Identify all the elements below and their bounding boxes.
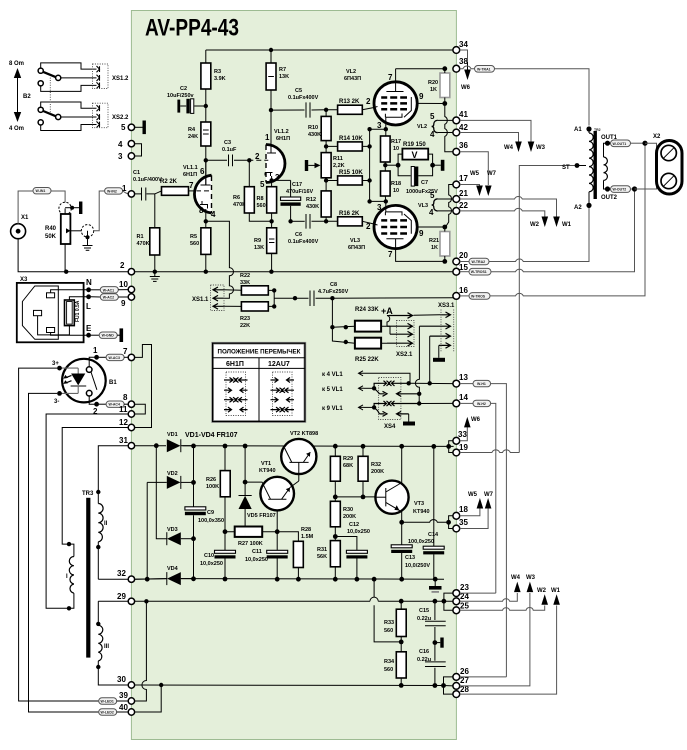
svg-text:II: II [104,521,108,527]
svg-text:0.1uF/400V: 0.1uF/400V [133,177,162,183]
svg-text:6: 6 [200,167,205,176]
svg-text:VT1: VT1 [261,461,271,467]
svg-text:W2: W2 [530,222,540,228]
oval W-GND [91,334,99,336]
svg-text:6П43П: 6П43П [344,76,361,82]
svg-text:VL3: VL3 [350,238,360,244]
cathode VL2 [385,114,402,118]
wire X1 top to W-IN1 [18,191,33,224]
svg-text:W-LED2: W-LED2 [101,711,114,715]
svg-text:0.1uFx400V: 0.1uFx400V [288,239,319,245]
wire pin 31 left down (outside) [98,446,128,492]
wire winding II bottom to pin 32 [98,578,128,580]
svg-text:36: 36 [459,141,468,150]
svg-text:W-IN2: W-IN2 [107,189,117,193]
svg-text:R12: R12 [306,197,316,203]
svg-text:3: 3 [118,152,123,161]
diode column vertical [193,446,195,507]
svg-text:VL2: VL2 [417,124,427,130]
svg-text:8 Om: 8 Om [9,61,24,67]
VT3 base wire [335,496,375,498]
grid dashes VL1.2 [249,159,268,161]
svg-text:100,0x250: 100,0x250 [408,539,434,545]
bottom bus (minus rail) [135,578,444,581]
grids VL2 [381,98,407,110]
lower bus (29 row) [135,600,444,602]
ST feedback vertical [519,166,577,453]
VT1 base wire from VD5 node [243,480,248,485]
svg-text:V: V [412,150,418,160]
feedback column [369,129,371,201]
rectifier bus top (pin31 row) [135,445,454,448]
svg-text:W7: W7 [484,492,494,498]
wire pin34 to W6 jumper [460,50,468,62]
wire pin18 to W5 up arrow [460,507,480,516]
svg-text:7: 7 [388,73,393,82]
svg-text:10,0x250: 10,0x250 [347,529,370,535]
svg-text:ST: ST [562,165,570,171]
svg-text:6Н1П: 6Н1П [226,361,244,368]
svg-text:W-H2: W-H2 [477,402,486,406]
svg-text:13K: 13K [279,74,289,80]
svg-text:W1: W1 [551,588,561,594]
svg-text:8: 8 [199,206,204,215]
svg-text:W-AC1: W-AC1 [103,288,114,292]
svg-text:R33: R33 [384,620,394,626]
svg-text:R6: R6 [233,195,240,201]
svg-text:8: 8 [123,393,128,402]
oval W-LED1 [99,698,117,704]
svg-text:4: 4 [211,210,216,219]
svg-text:W3: W3 [536,145,546,151]
svg-text:FU1 0.5A: FU1 0.5A [75,300,81,322]
svg-text:4: 4 [118,140,123,149]
svg-text:430K: 430K [306,204,319,210]
svg-text:29: 29 [117,592,126,601]
wire W-IN1 to pot top [51,191,65,203]
anode VL1.1 [201,184,211,186]
svg-text:200K: 200K [371,469,384,475]
svg-text:2,2K: 2,2K [333,163,345,169]
wire pin16 through W-TROS to OUT1 [460,295,469,297]
svg-text:к 9 VL1: к 9 VL1 [322,406,343,412]
svg-text:W5: W5 [468,492,478,498]
svg-text:X2: X2 [653,134,661,140]
wire inside green: pin 7 jog to pin 12 [135,345,152,428]
svg-text:15: 15 [459,263,468,272]
LED triangle [71,374,85,386]
svg-text:R21: R21 [429,238,439,244]
beam plate VL3 [404,214,411,234]
VT3 collector up to bus [399,446,402,484]
wire pin22 to W2 with hop [460,208,545,217]
X3 internal wires [51,290,89,293]
+A wire across to XS3.1 [414,314,441,316]
svg-text:W-AC2: W-AC2 [103,296,114,300]
mechanical link dotted line [49,78,51,114]
svg-text:C10: C10 [204,553,214,559]
svg-text:VL1.2: VL1.2 [274,129,289,135]
svg-text:R26: R26 [206,477,216,483]
svg-text:0.1uFx400V: 0.1uFx400V [288,95,319,101]
oval W-H2 [460,402,473,404]
wire gnd bus inside green [135,271,457,273]
resistor R25 22K [355,338,381,349]
svg-text:R22: R22 [240,273,250,279]
wire C8 node to pin 16 row [330,296,334,300]
svg-text:32: 32 [117,569,126,578]
svg-text:16: 16 [459,286,468,295]
svg-text:5: 5 [430,112,435,121]
svg-text:A1: A1 [574,127,582,133]
svg-text:2: 2 [120,261,125,270]
svg-text:C17: C17 [292,182,302,188]
wire pin25 to W2 lower arrow with hops [460,606,545,611]
VT1 emitter down wire [276,510,278,531]
svg-text:TR3: TR3 [82,491,94,497]
svg-text:X1: X1 [21,215,29,221]
svg-text:R27 100K: R27 100K [238,541,263,547]
wire pin 17 down to R21 top with hops [446,185,453,227]
VT2 base to VT1 emitter [298,462,300,481]
svg-text:W-AC3: W-AC3 [109,356,120,360]
wire jumpers to pin 13 [407,381,411,385]
wire B1 3+ left down [19,368,99,701]
svg-text:7: 7 [189,181,194,190]
wire pin27 to W3 lower arrow [460,593,530,686]
wire jumpers to pin 14 [417,392,421,396]
svg-text:R1: R1 [137,234,144,240]
chassis ground below bus [434,579,436,586]
svg-text:4: 4 [429,208,434,217]
IEC outline [22,286,58,339]
wire B1 3- left down [29,393,99,712]
svg-text:1K: 1K [431,245,438,251]
wire pin 11 to TR3 primary bottom [46,414,128,608]
svg-text:12AU7: 12AU7 [268,361,290,368]
svg-text:C1: C1 [133,170,140,176]
secondary winding [604,157,608,180]
svg-text:C5: C5 [295,88,302,94]
wire pin36 to W7 [460,152,489,185]
svg-text:430K: 430K [308,132,321,138]
svg-text:C15: C15 [419,608,429,614]
svg-text:R34: R34 [384,659,395,665]
svg-text:W-LED1: W-LED1 [101,700,114,704]
svg-text:KT940: KT940 [259,468,276,474]
svg-text:R2 2K: R2 2K [160,179,178,185]
svg-text:10uF/250v: 10uF/250v [167,93,195,99]
svg-text:10,0x250: 10,0x250 [245,557,268,563]
svg-text:5: 5 [121,123,126,132]
wire VT3 emitter to pins 18/35 with hop [402,520,449,523]
svg-text:560: 560 [190,241,199,247]
svg-text:C8: C8 [330,282,337,288]
svg-text:R3: R3 [214,69,221,75]
cathode VL3 [385,212,402,216]
svg-text:R32: R32 [371,462,381,468]
svg-text:20: 20 [459,251,468,260]
svg-text:3-: 3- [54,399,59,405]
svg-text:3.9K: 3.9K [214,76,226,82]
svg-text:W-IN1: W-IN1 [36,189,46,193]
shield dashed circle top [59,202,71,214]
wiper arrow of R40 [66,228,70,233]
svg-text:23: 23 [460,583,469,592]
green circuit board region [131,11,456,740]
junction dot [70,206,74,210]
bracket 26/27/28 to bus [444,677,454,694]
svg-text:C6: C6 [295,232,302,238]
svg-text:560: 560 [257,203,266,209]
svg-text:4 Om: 4 Om [9,126,24,132]
svg-text:XS1.2: XS1.2 [112,76,129,82]
bottom-most bus (30 row) [135,684,444,687]
svg-text:41: 41 [459,110,468,119]
svg-text:VD2: VD2 [167,471,178,477]
svg-text:30: 30 [117,675,126,684]
svg-text:4.7uFx250V: 4.7uFx250V [318,289,349,295]
svg-text:10: 10 [393,188,399,194]
chassis bar below XS3.1 [438,345,440,357]
cathode VL1.2 [265,173,273,177]
oval W-AC2 [91,296,100,298]
core TR2 [594,131,597,199]
svg-text:R24 33K: R24 33K [355,307,379,313]
wire pin38 through W-TRA1 to A1 [460,66,474,69]
prong L [47,328,55,333]
beam plate VL2 [404,97,411,117]
junction on bus [64,270,68,274]
grid wire from R16 [374,224,378,225]
svg-text:B2: B2 [23,94,31,100]
VT3 emitter down [399,510,402,522]
svg-text:OUT2: OUT2 [601,195,618,201]
svg-text:7: 7 [388,250,393,259]
svg-text:XS3.1: XS3.1 [438,303,455,309]
wire pin20 through W-TRA2 to A2 [460,261,469,263]
svg-text:2: 2 [366,222,371,231]
svg-text:12: 12 [119,418,128,427]
wire pin21 to W1 with hop [460,197,557,217]
svg-text:19: 19 [459,443,468,452]
table jumper glyphs left column [224,378,248,413]
svg-text:560: 560 [384,667,393,673]
svg-text:R30: R30 [343,507,353,513]
wire winding III top to pin 29 [98,600,128,602]
svg-text:W2: W2 [537,588,547,594]
svg-text:22: 22 [459,201,468,210]
svg-text:W-TROS: W-TROS [471,294,486,298]
svg-text:VD1: VD1 [167,432,178,438]
svg-text:R40: R40 [45,226,57,232]
svg-text:XS2.2: XS2.2 [112,115,129,121]
svg-text:R9: R9 [254,238,261,244]
svg-text:21: 21 [459,189,468,198]
cathode row wire to C6 [291,220,305,222]
svg-text:N: N [86,278,92,287]
anode VL1.2 [267,152,276,154]
svg-text:C3: C3 [224,140,231,146]
svg-text:3: 3 [377,121,382,130]
jumper dotted box XS4 [379,378,401,420]
svg-text:+A: +A [381,306,393,316]
svg-text:R29: R29 [343,456,353,462]
svg-text:31: 31 [119,436,128,445]
svg-text:VT3: VT3 [414,501,424,507]
table jumper glyphs right column [271,378,295,413]
oval W-H1 [460,383,473,385]
grid dashes VL1.1 [197,190,210,192]
svg-text:ПОЛОЖЕНИЕ ПЕРЕМЫЧЕК: ПОЛОЖЕНИЕ ПЕРЕМЫЧЕК [218,349,301,356]
svg-text:к 4 VL1: к 4 VL1 [322,372,343,378]
oval W-AC3 [106,354,124,360]
svg-text:W-TRA2: W-TRA2 [472,260,486,264]
svg-text:R13 2K: R13 2K [339,99,360,105]
feed from top bus to R33/R34 mid with hop over 29-row [374,579,401,642]
svg-text:10: 10 [393,146,399,152]
svg-text:W6: W6 [461,85,471,91]
chassis bar near pot top [79,202,82,215]
wire pin26 up to W-H1 vertical [460,676,507,678]
wire pin33 to W6 up arrow [460,426,468,441]
anode VL3 [386,238,403,240]
wire pin41 to W3 [460,120,531,142]
svg-text:W4: W4 [504,145,514,151]
wire R20 bottom down to pin 36 with hops over heater rows [445,104,453,152]
chassis bar right of C7 [433,164,441,166]
svg-text:W-H1: W-H1 [477,382,486,386]
svg-text:26: 26 [460,667,469,676]
wire pin23 up to W-H2 vertical [460,592,496,594]
wire pin17 to W5 [460,185,480,187]
fuse FU1 0.5A [65,300,75,326]
light arrows [66,375,72,383]
svg-text:68K: 68K [343,463,353,469]
svg-text:R17: R17 [391,139,401,145]
chassis bar at pin 5 [135,126,143,128]
ground symbol on bus [154,272,156,277]
svg-text:VD3: VD3 [167,527,178,533]
chassis tap arrow into R11 [305,160,308,171]
oval W-IN1 [33,188,51,194]
svg-text:XS1.1: XS1.1 [192,297,209,303]
wire pin35 to W7 up arrow [460,507,488,529]
svg-text:24K: 24K [188,134,198,140]
switch contacts [86,367,92,373]
svg-text:22K: 22K [240,323,250,329]
wire bracket pins 8-11 [135,404,146,414]
svg-text:100K: 100K [206,484,219,490]
svg-text:VD1-VD4 FR107: VD1-VD4 FR107 [185,432,238,439]
R24/R25 right connections [381,326,387,343]
svg-text:1: 1 [93,346,98,355]
svg-text:1K: 1K [430,87,437,93]
svg-text:C16: C16 [419,649,429,655]
svg-text:17: 17 [459,174,468,183]
svg-text:14: 14 [459,393,468,402]
svg-text:10: 10 [119,280,128,289]
svg-text:35: 35 [459,518,468,527]
svg-text:R11: R11 [333,156,343,162]
chassis bar at E [120,328,124,342]
table box [213,343,305,421]
svg-text:0.1uF: 0.1uF [222,147,237,153]
svg-text:470K: 470K [137,241,150,247]
svg-text:KT940: KT940 [413,509,430,515]
XS4 ground [408,414,410,422]
svg-text:10,0/250V: 10,0/250V [405,563,430,569]
wire pin24 to W4 lower arrow with hop [460,593,518,601]
svg-text:1.5M: 1.5M [301,534,314,540]
svg-text:R10: R10 [308,125,318,131]
svg-text:1: 1 [122,184,127,193]
wire pin28 to W1 lower arrow [460,606,557,695]
wire VD2 left to pin32 row [146,482,148,579]
svg-text:C7: C7 [421,180,428,186]
svg-text:39: 39 [119,691,128,700]
svg-text:R28: R28 [301,527,311,533]
svg-text:R8: R8 [257,196,264,202]
wire X1 bottom to gnd bus [18,239,128,272]
wire pin 12 to TR3 primary top [62,428,128,545]
grid wire from R13 [374,107,378,108]
switch XS2.2 [38,102,99,131]
svg-text:R23: R23 [240,316,250,322]
wire pin 39 up to 29-row (hop over 30-row) [135,601,147,701]
anode VL2 [386,91,403,93]
svg-text:13K: 13K [254,245,264,251]
screen wire pin9 to R20 bottom [417,102,445,104]
svg-text:1000uFx25V: 1000uFx25V [406,189,438,195]
svg-text:R19 150: R19 150 [403,142,426,148]
wire bracket joining pins 4 and 3 [135,144,142,156]
svg-text:3: 3 [377,203,382,212]
svg-text:W-TROS1: W-TROS1 [471,270,487,274]
svg-text:6Н1П: 6Н1П [183,172,197,178]
svg-text:200K: 200K [343,514,356,520]
svg-text:L: L [86,302,91,311]
svg-text:2: 2 [255,152,260,161]
svg-text:560: 560 [384,628,393,634]
oval W-LED2 [99,709,117,715]
svg-text:XS2.1: XS2.1 [396,352,413,358]
svg-text:7: 7 [123,347,128,356]
svg-text:R7: R7 [279,67,286,73]
svg-text:C12: C12 [349,522,359,528]
svg-text:C11: C11 [252,549,262,555]
svg-text:9: 9 [419,229,424,238]
wire pin19 right with hops to ST vertical [460,450,520,453]
svg-text:R31: R31 [317,547,327,553]
svg-text:W1: W1 [562,222,572,228]
svg-text:6Н1П: 6Н1П [276,136,290,142]
svg-text:C13: C13 [405,555,415,561]
svg-text:B1: B1 [109,380,117,386]
svg-text:W-OUT2: W-OUT2 [613,188,627,192]
svg-text:E: E [86,324,92,333]
svg-text:100,0x350: 100,0x350 [198,518,224,524]
svg-text:W4: W4 [511,575,521,581]
svg-text:R18: R18 [391,181,401,187]
svg-text:C2: C2 [180,86,187,92]
svg-text:VL1.1: VL1.1 [183,165,198,171]
switch XS1.2 [38,63,99,92]
chassis bar at C15/C16 mid [435,642,440,644]
svg-text:2: 2 [366,97,371,106]
screen wire pin9 VL3 to R21 top [417,226,445,228]
wire pin 40 up to 30-row [135,685,162,712]
